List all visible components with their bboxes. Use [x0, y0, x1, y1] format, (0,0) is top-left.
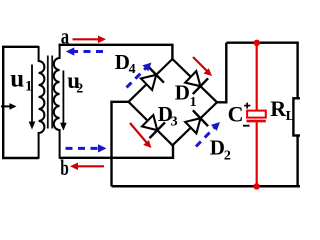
wire RL leads	[296, 43, 298, 187]
bridge diamond wires	[129, 59, 218, 145]
current arrow red top (a rightward)	[73, 36, 107, 44]
svg-text:D: D	[210, 136, 225, 160]
resistor RL box	[293, 98, 304, 135]
minus sign	[243, 125, 250, 127]
svg-text:2: 2	[224, 149, 231, 164]
wire bridge left vertex to bottom rail	[112, 102, 129, 187]
u1 voltage arrow	[29, 65, 36, 130]
wire bridge right vertex to top right rail	[217, 43, 226, 103]
transformer core	[47, 56, 49, 129]
junction dot top	[254, 40, 260, 46]
diode D1	[185, 71, 208, 94]
u2 voltage arrow	[60, 71, 67, 131]
wire a to bridge top	[59, 45, 173, 59]
svg-text:4: 4	[129, 62, 136, 77]
svg-text:C: C	[228, 101, 244, 126]
current arrow blue dashed bottom (rightward)	[66, 144, 107, 152]
current arrow blue dashed top (leftward)	[66, 47, 103, 55]
transformer primary winding	[39, 46, 45, 159]
capacitor C (red electrolytic)	[247, 43, 266, 187]
wire b to bridge bottom	[60, 145, 173, 158]
svg-text:1: 1	[190, 95, 197, 110]
wire left loop (source side)	[2, 46, 39, 159]
junction dot bottom	[253, 183, 259, 189]
svg-text:D: D	[175, 81, 190, 105]
wire bottom rail	[112, 185, 301, 188]
svg-text:u: u	[10, 65, 24, 92]
current arrow red bottom (leftward toward b)	[70, 163, 104, 171]
svg-text:3: 3	[171, 115, 178, 130]
diode D2	[185, 110, 208, 133]
current arrow red D1	[193, 57, 212, 76]
current arrow blue dashed D2	[196, 122, 220, 147]
transformer secondary winding	[54, 45, 60, 159]
current arrow blue dashed D4	[127, 63, 152, 88]
svg-text:2: 2	[76, 81, 83, 96]
diode D4	[141, 67, 164, 90]
plus sign	[244, 103, 250, 109]
wire top right rail	[226, 42, 298, 44]
diode D3	[142, 115, 165, 138]
current arrow red D3	[130, 123, 152, 148]
node input current arrow	[1, 103, 17, 110]
